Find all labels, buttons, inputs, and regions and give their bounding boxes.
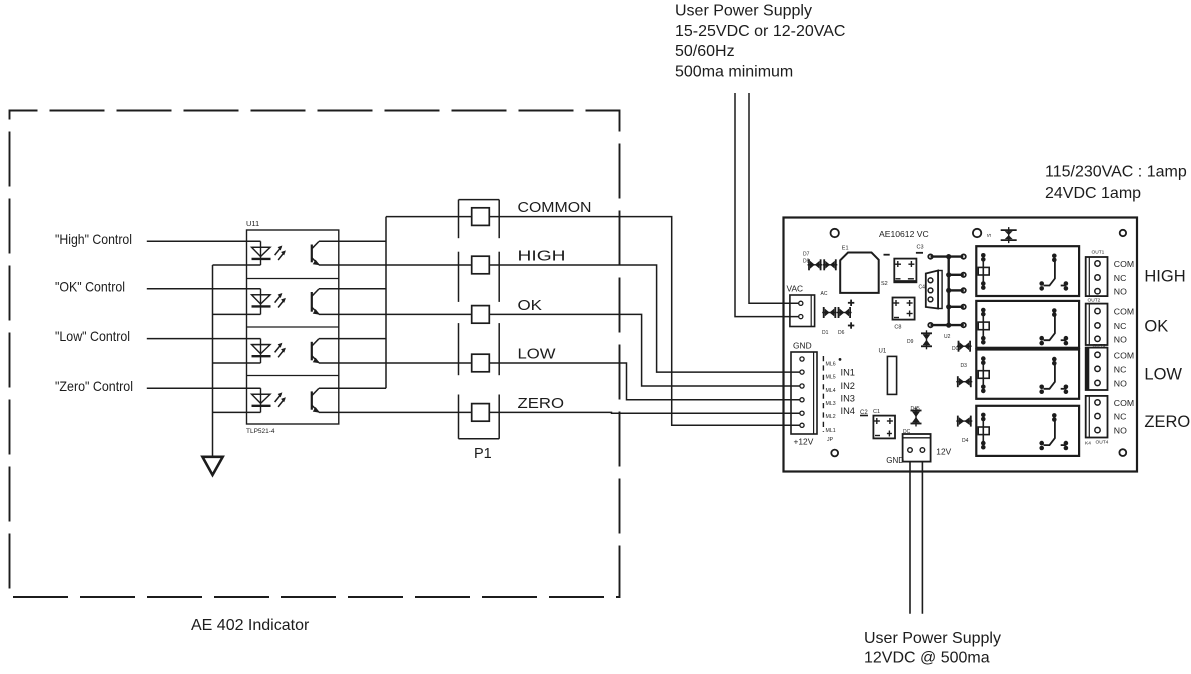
- svg-text:E1: E1: [842, 246, 849, 252]
- note: user power supply 12VDC (bottom): [864, 630, 1001, 667]
- svg-text:NC: NC: [1114, 412, 1127, 422]
- svg-text:ML1: ML1: [826, 428, 836, 434]
- svg-text:K4: K4: [1085, 441, 1091, 447]
- svg-text:AC: AC: [821, 291, 828, 297]
- terminal block OUT3: [1086, 348, 1108, 390]
- svg-text:15-25VDC or 12-20VAC: 15-25VDC or 12-20VAC: [675, 23, 845, 40]
- capacitor C5: [894, 259, 916, 283]
- svg-text:D8: D8: [803, 259, 810, 265]
- wire OK to IN2: [489, 314, 800, 386]
- wire cathode return 3: [213, 362, 261, 364]
- relay K1: [976, 246, 1079, 296]
- wire collector 3 to common bus: [319, 338, 386, 340]
- svg-text:IN3: IN3: [841, 393, 855, 403]
- optocoupler U11 body: [247, 230, 339, 424]
- svg-text:D6: D6: [838, 330, 845, 336]
- svg-text:NC: NC: [1114, 273, 1127, 283]
- svg-text:500ma minimum: 500ma minimum: [675, 63, 793, 80]
- wire ZERO to IN4: [489, 411, 800, 414]
- capacitor E1: [840, 246, 888, 293]
- svg-text:ML6: ML6: [826, 362, 836, 368]
- svg-text:OUT4: OUT4: [1096, 440, 1109, 446]
- terminal block OUT2: [1086, 304, 1108, 345]
- svg-text:C4: C4: [919, 285, 926, 291]
- svg-text:NO: NO: [1114, 426, 1127, 436]
- svg-text:ML5: ML5: [826, 374, 836, 380]
- P1 pin 3 square: [472, 306, 490, 324]
- wire 12VDC supply GND: [909, 462, 911, 614]
- svg-text:TLP521-4: TLP521-4: [246, 428, 275, 435]
- svg-text:12VDC @ 500ma: 12VDC @ 500ma: [864, 650, 990, 667]
- mounting hole 5: [1119, 449, 1126, 456]
- diode D3: [956, 363, 972, 387]
- diode D10: [911, 406, 922, 427]
- note: relay contact rating: [1045, 164, 1187, 203]
- wire COMMON to +12V pin: [489, 217, 800, 426]
- wire emitter 2 to P1 pin 3: [319, 313, 472, 315]
- AE 402 indicator dashed enclosure: [10, 111, 620, 598]
- svg-text:OUT2: OUT2: [1088, 298, 1101, 304]
- svg-text:NC: NC: [1114, 321, 1127, 331]
- svg-text:NO: NO: [1114, 378, 1127, 388]
- diode D0: [958, 341, 960, 352]
- connector VAC: [790, 295, 815, 327]
- terminal block OUT4: [1086, 396, 1108, 438]
- P1 pin 1 square: [472, 208, 490, 226]
- capacitor C7: [893, 298, 915, 320]
- diode D4: [956, 416, 972, 444]
- jumper labels ML6-ML1 JP: [826, 362, 836, 443]
- svg-text:JP: JP: [827, 437, 834, 443]
- svg-text:OK: OK: [518, 297, 543, 314]
- svg-text:"OK" Control: "OK" Control: [55, 279, 125, 294]
- svg-text:IN4: IN4: [841, 406, 855, 416]
- svg-text:C3: C3: [917, 245, 924, 251]
- transistor of optocoupler channel 4: [312, 388, 320, 412]
- relay K4: [976, 406, 1079, 456]
- svg-text:GND: GND: [793, 341, 812, 351]
- svg-text:ZERO: ZERO: [518, 395, 565, 412]
- P1 pin 5 square: [472, 404, 490, 422]
- svg-text:COM: COM: [1114, 307, 1134, 317]
- wire 12VDC supply +12V: [921, 462, 923, 614]
- wire collector 4 to common bus: [319, 387, 386, 389]
- connector C4: [919, 271, 943, 309]
- svg-text:"Low" Control: "Low" Control: [55, 329, 130, 344]
- terminal block OUT1: [1086, 257, 1108, 296]
- wire LOW to IN3: [489, 363, 800, 400]
- svg-text:U11: U11: [246, 219, 259, 228]
- svg-text:HIGH: HIGH: [518, 247, 566, 264]
- svg-text:S2: S2: [881, 281, 888, 287]
- diodes D1 D6 with polarity marks: [822, 300, 854, 336]
- mounting hole 3: [1120, 230, 1126, 236]
- svg-text:12V: 12V: [936, 446, 951, 456]
- svg-text:D0: D0: [952, 346, 959, 352]
- svg-text:User Power Supply: User Power Supply: [675, 3, 812, 20]
- svg-text:IN2: IN2: [841, 381, 855, 391]
- svg-text:C1: C1: [873, 409, 880, 415]
- wire cathode return 4: [213, 411, 261, 413]
- svg-text:OUT3: OUT3: [1093, 343, 1106, 349]
- U11 cell divider 1: [247, 278, 339, 280]
- svg-text:C8: C8: [894, 325, 901, 331]
- svg-text:GND: GND: [886, 456, 904, 465]
- wire "Zero" Control input: [147, 387, 261, 389]
- svg-text:NC: NC: [1114, 364, 1127, 374]
- LED of optocoupler channel 3: [252, 339, 286, 363]
- diode D9: [907, 330, 932, 349]
- connector J1 GND/+12V: [791, 352, 817, 434]
- wire emitter 4 to P1 pin 5: [319, 411, 472, 413]
- P1 pin 4 square: [472, 354, 490, 372]
- ground: [202, 457, 222, 475]
- thick border between relay K2 and K3: [976, 347, 1079, 350]
- wire "OK" Control input: [147, 288, 261, 290]
- svg-text:115/230VAC : 1amp: 115/230VAC : 1amp: [1045, 164, 1187, 181]
- wire collector 1 to common bus: [319, 240, 386, 242]
- diode D7: [803, 252, 822, 271]
- relay board AE10612 outline: [784, 218, 1138, 472]
- P1 pin 2 square: [472, 256, 490, 274]
- relay K3: [976, 350, 1079, 399]
- svg-text:COM: COM: [1114, 350, 1134, 360]
- capacitor C2 label: [860, 410, 868, 416]
- mounting hole 4: [831, 450, 838, 457]
- connector P1 outline: [459, 200, 500, 439]
- svg-text:D3: D3: [961, 363, 968, 369]
- svg-text:LOW: LOW: [1144, 366, 1182, 384]
- svg-text:U1: U1: [879, 349, 887, 355]
- svg-text:VAC: VAC: [787, 284, 804, 294]
- transistor of optocoupler channel 3: [312, 339, 320, 364]
- note: user power supply (top): [675, 3, 845, 81]
- resistor network U2: [928, 254, 966, 328]
- mounting hole 2: [973, 229, 981, 237]
- svg-text:"High" Control: "High" Control: [55, 232, 132, 247]
- svg-text:ML3: ML3: [826, 401, 836, 407]
- wire emitter 3 to P1 pin 4: [319, 362, 472, 364]
- LED of optocoupler channel 4: [252, 388, 286, 412]
- transistor of optocoupler channel 2: [312, 289, 320, 315]
- svg-text:HIGH: HIGH: [1144, 268, 1185, 286]
- wire HIGH to IN1: [489, 265, 800, 372]
- IN1-IN4 labels: [841, 367, 855, 416]
- capacitor C1: [873, 409, 895, 438]
- wire common bus to P1 pin 1: [386, 216, 472, 218]
- op-amp U1: [879, 349, 897, 395]
- wire AC supply line 1: [749, 93, 799, 303]
- svg-text:COMMON: COMMON: [518, 199, 592, 216]
- wire AC supply line 2: [735, 93, 799, 317]
- svg-text:24VDC 1amp: 24VDC 1amp: [1045, 185, 1141, 202]
- U11 cell divider 3: [247, 375, 339, 377]
- silk dot: [839, 358, 842, 361]
- svg-text:LOW: LOW: [518, 345, 557, 362]
- diode D8: [803, 259, 837, 271]
- svg-text:OK: OK: [1144, 317, 1168, 335]
- svg-text:AE 402 Indicator: AE 402 Indicator: [191, 617, 310, 634]
- wire collector common bus: [385, 217, 387, 389]
- transistor of optocoupler channel 1: [312, 242, 320, 266]
- LED of optocoupler channel 1: [252, 241, 286, 265]
- wire cathode return 2: [213, 313, 261, 315]
- svg-text:D9: D9: [907, 339, 914, 345]
- svg-text:ML4: ML4: [826, 388, 836, 394]
- connector DC 12V input: [903, 429, 931, 462]
- svg-text:D1: D1: [822, 330, 829, 336]
- mounting hole 1: [831, 229, 839, 237]
- svg-text:+12V: +12V: [794, 437, 814, 447]
- wire cathode return 1: [213, 264, 261, 266]
- svg-text:D7: D7: [803, 252, 810, 258]
- svg-text:ZERO: ZERO: [1144, 413, 1190, 431]
- wire "High" Control input: [147, 240, 261, 242]
- svg-text:P1: P1: [474, 446, 492, 462]
- jumper strip dashed line: [822, 356, 824, 432]
- capacitor C3 label and mark: [916, 245, 924, 253]
- svg-text:User Power Supply: User Power Supply: [864, 630, 1001, 647]
- svg-text:IN1: IN1: [841, 367, 855, 377]
- polarity minus near E1: [884, 254, 890, 256]
- svg-text:ML2: ML2: [826, 414, 836, 420]
- wire "Low" Control input: [147, 338, 261, 340]
- svg-text:50/60Hz: 50/60Hz: [675, 43, 735, 60]
- svg-text:COM: COM: [1114, 259, 1134, 269]
- U11 cell divider 2: [247, 326, 339, 328]
- svg-text:U2: U2: [944, 334, 951, 340]
- svg-text:NO: NO: [1114, 334, 1127, 344]
- svg-text:COM: COM: [1114, 398, 1134, 408]
- LED of optocoupler channel 2: [252, 289, 286, 315]
- wire cathode bus to ground: [212, 265, 214, 457]
- svg-text:NO: NO: [1114, 287, 1127, 297]
- wire emitter 1 to P1 pin 2: [319, 264, 472, 266]
- svg-text:D4: D4: [962, 438, 969, 444]
- diode D5: [987, 227, 1017, 243]
- svg-text:OUT1: OUT1: [1092, 250, 1105, 256]
- wire collector 2 to common bus: [319, 288, 386, 290]
- svg-text:AE10612 VC: AE10612 VC: [879, 229, 929, 239]
- relay K2: [976, 301, 1079, 348]
- svg-text:"Zero" Control: "Zero" Control: [55, 379, 133, 394]
